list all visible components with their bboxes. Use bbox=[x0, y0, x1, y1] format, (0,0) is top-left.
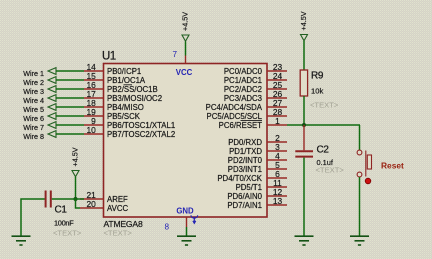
active-low overbar RESET (PC6) bbox=[241, 120, 263, 122]
pin name PB7/TOSC2/XTAL2 bbox=[107, 130, 175, 139]
pin name PD1/TXD bbox=[229, 147, 262, 156]
power terminal +4.5V (AREF/AVCC) bbox=[71, 147, 80, 176]
svg-text:PD5/T1: PD5/T1 bbox=[236, 183, 262, 192]
pin stub 2 (PD0/RXD) bbox=[267, 141, 287, 143]
pin name AREF bbox=[107, 195, 128, 204]
pin name PD0/RXD bbox=[228, 138, 262, 147]
pin stub 7 (VCC) bbox=[185, 56, 187, 64]
wire reset net down to button top contact bbox=[359, 125, 361, 150]
pin number 4 bbox=[275, 151, 280, 161]
power terminal +4.5V (R9) bbox=[299, 11, 308, 40]
blue origin marker at chip GND bbox=[191, 215, 198, 223]
terminal Wire 2 input arrow bbox=[48, 77, 56, 84]
pin name PB6/TOSC1/XTAL1 bbox=[107, 121, 175, 130]
svg-text:GND: GND bbox=[176, 207, 194, 216]
C1 TEXT placeholder bbox=[53, 229, 82, 238]
wire AREF node to pin 21 bbox=[76, 198, 85, 200]
svg-text:PD2/INT0: PD2/INT0 bbox=[228, 156, 263, 165]
svg-text:Wire 8: Wire 8 bbox=[23, 132, 44, 141]
svg-text:13: 13 bbox=[273, 196, 283, 206]
pin number 17 bbox=[86, 89, 96, 99]
svg-text:VCC: VCC bbox=[176, 68, 193, 77]
svg-text:10k: 10k bbox=[311, 87, 323, 96]
svg-text:Wire 3: Wire 3 bbox=[23, 87, 44, 96]
pin number 25 bbox=[273, 80, 283, 90]
wire Wire 4 to pin 17 bbox=[56, 97, 84, 99]
svg-text:PB5/SCK: PB5/SCK bbox=[107, 112, 141, 121]
pin name AVCC bbox=[107, 204, 128, 213]
pin stub 19 (PB5/SCK) bbox=[84, 115, 104, 117]
label Wire 1 bbox=[23, 69, 44, 78]
pin stub 12 (PD6/AIN0) bbox=[267, 195, 287, 197]
Reset label bbox=[381, 161, 404, 171]
pin stub 14 (PB0/ICP1) bbox=[84, 70, 104, 72]
pin name PC2/ADC2 bbox=[224, 85, 262, 94]
terminal Wire 8 input arrow bbox=[48, 131, 56, 138]
svg-text:PD1/TXD: PD1/TXD bbox=[229, 147, 262, 156]
svg-text:PB1/OC1A: PB1/OC1A bbox=[107, 76, 146, 85]
pin stub 11 (PD5/T1) bbox=[267, 186, 287, 188]
U1 reference label bbox=[102, 51, 116, 63]
pin number 16 bbox=[86, 80, 96, 90]
pin name PD6/AIN0 bbox=[227, 192, 262, 201]
chip TEXT placeholder label bbox=[104, 229, 133, 238]
label Wire 4 bbox=[23, 96, 44, 105]
wire C2 bottom to ground bbox=[303, 158, 305, 236]
svg-text:10: 10 bbox=[86, 125, 96, 135]
pin name PD4/T0/XCK bbox=[217, 174, 262, 183]
push button contacts bbox=[357, 150, 362, 177]
node B junction reset net at R9/C2 bbox=[302, 123, 306, 127]
pin number 26 bbox=[273, 89, 283, 99]
pin number 11 bbox=[273, 178, 282, 188]
svg-text:PB7/TOSC2/XTAL2: PB7/TOSC2/XTAL2 bbox=[107, 130, 175, 139]
svg-text:PC1/ADC1: PC1/ADC1 bbox=[224, 76, 262, 85]
label Wire 2 bbox=[23, 78, 44, 87]
svg-text:PB0/ICP1: PB0/ICP1 bbox=[107, 67, 141, 76]
pin stub 20 (AVCC) bbox=[80, 207, 104, 209]
wire Wire 6 to pin 19 bbox=[56, 115, 84, 117]
pin number 3 bbox=[275, 142, 280, 152]
svg-text:AVCC: AVCC bbox=[107, 204, 128, 213]
svg-text:PD3/INT1: PD3/INT1 bbox=[228, 165, 262, 174]
resistor R9 bbox=[300, 70, 307, 96]
pin number 24 bbox=[273, 71, 283, 81]
pin stub 23 (PC0/ADC0) bbox=[267, 70, 287, 72]
pin name PC6/RESET bbox=[219, 121, 263, 130]
svg-text:PD7/AIN1: PD7/AIN1 bbox=[227, 201, 262, 210]
pin number 8 bbox=[164, 223, 169, 232]
capacitor C2 bbox=[295, 151, 313, 156]
ground symbol under chip GND pin bbox=[177, 236, 196, 245]
pin stub 24 (PC1/ADC1) bbox=[267, 79, 287, 81]
pin number 27 bbox=[273, 98, 283, 108]
R9 value label 10k bbox=[311, 87, 323, 96]
wire +4.5V down to AREF node bbox=[75, 177, 77, 199]
pin name PC4/ADC4/SDA bbox=[206, 103, 263, 112]
push button red origin dot bbox=[365, 178, 371, 184]
svg-text:PB6/TOSC1/XTAL1: PB6/TOSC1/XTAL1 bbox=[107, 121, 175, 130]
svg-text:PC4/ADC4/SDA: PC4/ADC4/SDA bbox=[206, 103, 263, 112]
wire Wire 5 to pin 18 bbox=[56, 106, 84, 108]
svg-text:PC5/ADC5/SCL: PC5/ADC5/SCL bbox=[207, 112, 263, 121]
pin name PB5/SCK bbox=[107, 112, 141, 121]
pin number 21 bbox=[86, 190, 96, 200]
svg-text:AREF: AREF bbox=[107, 195, 128, 204]
terminal Wire 7 input arrow bbox=[48, 122, 56, 129]
pin stub 13 (PD7/AIN1) bbox=[267, 204, 287, 206]
wire AREF node down to AVCC pin 20 bbox=[76, 199, 81, 208]
pin number 13 bbox=[273, 196, 283, 206]
svg-text:R9: R9 bbox=[311, 71, 324, 82]
ground symbol below C1 bbox=[12, 236, 31, 245]
svg-text:PB4/MISO: PB4/MISO bbox=[107, 103, 144, 112]
svg-text:PD0/RXD: PD0/RXD bbox=[228, 138, 262, 147]
pin stub 10 (PB7/TOSC2/XTAL2) bbox=[84, 133, 104, 135]
pin stub 9 (PB6/TOSC1/XTAL1) bbox=[84, 124, 104, 126]
pin number 1 bbox=[275, 116, 280, 126]
terminal Wire 3 input arrow bbox=[48, 86, 56, 93]
svg-text:C1: C1 bbox=[55, 205, 68, 216]
wire +4.5V to R9 top bbox=[303, 41, 305, 70]
pin number 5 bbox=[275, 160, 280, 170]
pin stub 17 (PB3/MOSI/OC2) bbox=[84, 97, 104, 99]
pin number 18 bbox=[86, 98, 96, 108]
pin stub 21 (AREF) bbox=[80, 198, 104, 200]
R9 reference label bbox=[311, 71, 324, 82]
label Wire 6 bbox=[23, 114, 44, 123]
label Wire 7 bbox=[23, 123, 44, 132]
pin number 6 bbox=[275, 169, 280, 179]
pin name PD5/T1 bbox=[236, 183, 262, 192]
C2 value label 0.1uf bbox=[317, 158, 334, 167]
push button plunger bbox=[366, 151, 372, 177]
pin name PC1/ADC1 bbox=[224, 76, 262, 85]
capacitor C1 bbox=[46, 191, 51, 208]
svg-text:U1: U1 bbox=[102, 51, 116, 63]
R9 TEXT placeholder bbox=[310, 101, 339, 110]
svg-text:Wire 6: Wire 6 bbox=[23, 114, 44, 123]
wire Wire 7 to pin 9 bbox=[56, 124, 84, 126]
pin stub 26 (PC3/ADC3) bbox=[267, 97, 287, 99]
node A junction at AREF bbox=[73, 197, 77, 201]
svg-text:Wire 5: Wire 5 bbox=[23, 105, 44, 114]
pin name PD2/INT0 bbox=[228, 156, 263, 165]
ground symbol below C2 bbox=[295, 236, 314, 245]
wire Wire 1 to pin 14 bbox=[56, 70, 84, 72]
wire R9 bottom to reset node bbox=[303, 96, 305, 125]
pin name PD3/INT1 bbox=[228, 165, 262, 174]
pin number 14 bbox=[86, 62, 96, 72]
pin name PB0/ICP1 bbox=[107, 67, 141, 76]
pin name PD7/AIN1 bbox=[227, 201, 262, 210]
svg-text:7: 7 bbox=[172, 50, 177, 59]
svg-text:+4.5V: +4.5V bbox=[299, 11, 308, 30]
pin name GND bbox=[176, 207, 194, 216]
svg-text:PB3/MOSI/OC2: PB3/MOSI/OC2 bbox=[107, 94, 162, 103]
pin name PB4/MISO bbox=[107, 103, 144, 112]
pin stub 25 (PC2/ADC2) bbox=[267, 88, 287, 90]
pin number 20 bbox=[86, 199, 96, 209]
svg-text:PC2/ADC2: PC2/ADC2 bbox=[224, 85, 262, 94]
terminal Wire 4 input arrow bbox=[48, 95, 56, 102]
C2 reference label bbox=[317, 145, 330, 156]
terminal Wire 6 input arrow bbox=[48, 113, 56, 120]
svg-text:PC3/ADC3: PC3/ADC3 bbox=[224, 94, 262, 103]
svg-text:PB2/SS/OC1B: PB2/SS/OC1B bbox=[107, 85, 158, 94]
wire reset node down to C2 bbox=[303, 125, 305, 150]
pin stub 3 (PD1/TXD) bbox=[267, 150, 287, 152]
wire Wire 8 to pin 10 bbox=[56, 133, 84, 135]
pin stub 15 (PB1/OC1A) bbox=[84, 79, 104, 81]
svg-text:+4.5V: +4.5V bbox=[71, 147, 80, 166]
pin stub 27 (PC4/ADC4/SDA) bbox=[267, 106, 287, 108]
svg-text:<TEXT>: <TEXT> bbox=[316, 166, 345, 175]
terminal Wire 5 input arrow bbox=[48, 104, 56, 111]
terminal Wire 1 input arrow bbox=[48, 68, 56, 75]
wire Wire 2 to pin 15 bbox=[56, 79, 84, 81]
pin name PC0/ADC0 bbox=[224, 67, 263, 76]
pin name PB3/MOSI/OC2 bbox=[107, 94, 162, 103]
pin number 28 bbox=[273, 107, 283, 117]
wire VCC power to pin 7 bbox=[185, 42, 187, 56]
svg-text:Reset: Reset bbox=[381, 161, 404, 171]
svg-text:<TEXT>: <TEXT> bbox=[53, 229, 82, 238]
C2 TEXT placeholder bbox=[316, 166, 345, 175]
svg-text:20: 20 bbox=[86, 199, 96, 209]
pin number 23 bbox=[273, 62, 283, 72]
pin number 10 bbox=[86, 125, 96, 135]
svg-text:PD4/T0/XCK: PD4/T0/XCK bbox=[217, 174, 262, 183]
pin stub 1 (PC6/RESET) bbox=[267, 124, 287, 126]
pin stub 18 (PB4/MISO) bbox=[84, 106, 104, 108]
wire pin 8 to ground bbox=[186, 227, 188, 236]
svg-text:<TEXT>: <TEXT> bbox=[104, 229, 133, 238]
pin number 15 bbox=[86, 71, 96, 81]
pin name PC5/ADC5/SCL bbox=[207, 112, 263, 121]
wire button bottom contact to ground bbox=[359, 177, 361, 236]
wire C1 right to AREF node bbox=[52, 198, 76, 200]
svg-text:C2: C2 bbox=[317, 145, 330, 156]
microcontroller U1 ATMEGA8 chip body bbox=[104, 64, 268, 218]
svg-text:PC0/ADC0: PC0/ADC0 bbox=[224, 67, 263, 76]
pin stub 8 (GND) bbox=[186, 217, 188, 227]
label Wire 3 bbox=[23, 87, 44, 96]
svg-text:PD6/AIN0: PD6/AIN0 bbox=[227, 192, 262, 201]
C1 value label 100nF bbox=[54, 219, 74, 228]
svg-text:<TEXT>: <TEXT> bbox=[310, 101, 339, 110]
wire C1 left to ground corner bbox=[21, 199, 45, 236]
pin name PC3/ADC3 bbox=[224, 94, 262, 103]
svg-text:Wire 4: Wire 4 bbox=[23, 96, 44, 105]
pin name PB2/SS/OC1B bbox=[107, 85, 158, 94]
label Wire 5 bbox=[23, 105, 44, 114]
svg-text:1: 1 bbox=[275, 116, 280, 126]
svg-text:8: 8 bbox=[164, 223, 169, 232]
pin name VCC bbox=[176, 68, 193, 77]
ground symbol below button bbox=[350, 236, 369, 245]
wire Wire 3 to pin 16 bbox=[56, 88, 84, 90]
svg-text:ATMEGA8: ATMEGA8 bbox=[104, 219, 143, 229]
active-low overbar SS (PB2) bbox=[124, 84, 133, 86]
wire reset net from pin 1 to button bbox=[287, 124, 360, 126]
pin number 9 bbox=[91, 116, 96, 126]
C1 reference label bbox=[55, 205, 68, 216]
pin name PB1/OC1A bbox=[107, 76, 146, 85]
pin number 12 bbox=[273, 187, 283, 197]
pin number 2 bbox=[275, 133, 280, 143]
pin number 7 bbox=[172, 50, 177, 59]
svg-text:Wire 1: Wire 1 bbox=[23, 69, 44, 78]
pin stub 28 (PC5/ADC5/SCL) bbox=[267, 115, 287, 117]
ATMEGA8 value label bbox=[104, 219, 143, 229]
svg-text:Wire 7: Wire 7 bbox=[23, 123, 44, 132]
label Wire 8 bbox=[23, 132, 44, 141]
pin stub 16 (PB2/SS/OC1B) bbox=[84, 88, 104, 90]
pin stub 4 (PD2/INT0) bbox=[267, 159, 287, 161]
svg-text:100nF: 100nF bbox=[54, 219, 74, 228]
pin stub 5 (PD3/INT1) bbox=[267, 168, 287, 170]
svg-text:Wire 2: Wire 2 bbox=[23, 78, 44, 87]
pin stub 6 (PD4/T0/XCK) bbox=[267, 177, 287, 179]
svg-text:PC6/RESET: PC6/RESET bbox=[219, 121, 263, 130]
pin number 19 bbox=[86, 107, 96, 117]
svg-text:+4.5V: +4.5V bbox=[181, 12, 190, 31]
power terminal +4.5V (VCC) bbox=[181, 12, 190, 41]
